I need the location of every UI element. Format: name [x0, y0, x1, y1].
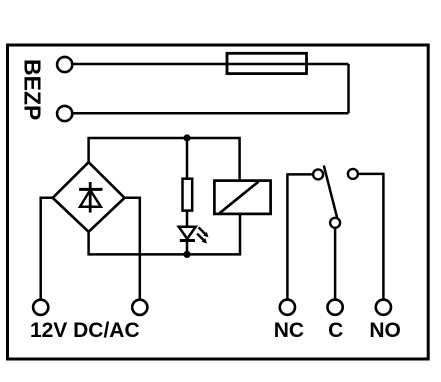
terminal NC [280, 300, 295, 315]
terminal fuse-bottom [57, 106, 72, 121]
wire NO horizontal [359, 173, 383, 176]
wire AC left [41, 198, 53, 299]
wire fuse return [72, 112, 348, 115]
fuse F1 [227, 53, 307, 73]
wire DC top bus [89, 138, 240, 181]
junction dot bottom [183, 251, 190, 258]
LED light arrows [197, 227, 208, 243]
wire AC right [125, 198, 140, 299]
resistor R1 [183, 179, 193, 211]
contact NC pivot [313, 169, 323, 179]
board outline frame [8, 45, 429, 359]
LED D1 [179, 227, 196, 241]
contact common pivot [330, 218, 340, 228]
bridge rectifier BR1 diamond [53, 162, 125, 232]
contact NO pivot [348, 169, 358, 179]
relay coil diagonal [220, 182, 259, 214]
svg-text:NO: NO [369, 319, 401, 342]
relay coil K1 [214, 181, 270, 214]
svg-text:BEZP: BEZP [19, 59, 45, 120]
wire resistor-LED lead [186, 211, 189, 255]
terminal 12V right [132, 300, 147, 315]
wire through fuse [227, 63, 307, 66]
wire NC horizontal [287, 173, 312, 176]
junction dot top [183, 134, 190, 141]
relay contact armature [324, 166, 338, 219]
terminal 12V left [33, 300, 48, 315]
svg-text:C: C [328, 319, 343, 342]
terminal NO [376, 300, 391, 315]
wire resistor top lead [186, 138, 189, 179]
wire NO vertical [382, 173, 385, 300]
svg-text:12V DC/AC: 12V DC/AC [30, 319, 140, 342]
diode symbol inside bridge [79, 182, 103, 213]
terminal fuse-top [57, 57, 72, 72]
wire fuse top [72, 63, 348, 66]
svg-text:NC: NC [274, 319, 304, 342]
wire DC bottom bus [89, 214, 240, 255]
wire NC vertical [286, 173, 289, 299]
wire C vertical [334, 229, 337, 299]
wire fuse right vertical [347, 64, 350, 113]
terminal C [328, 300, 343, 315]
